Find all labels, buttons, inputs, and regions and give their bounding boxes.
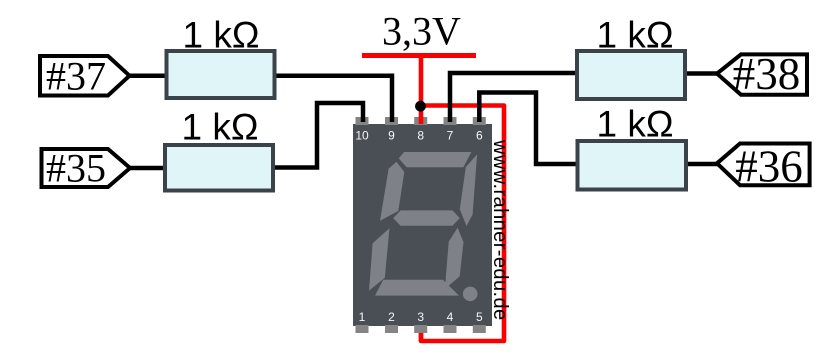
segment C lower-right [445,228,464,289]
pin 6 tab [473,117,486,125]
svg-text:2: 2 [388,310,395,324]
pin 4 tab [444,325,457,333]
power bar 3,3V [362,53,476,58]
wire: R1 to pin 9 [274,76,392,122]
segment E lower-left [369,228,390,290]
svg-text:8: 8 [417,129,424,143]
tag #35 [42,146,131,191]
segment F upper-left [380,162,404,221]
svg-text:4: 4 [447,310,454,324]
svg-text:#38: #38 [733,49,801,99]
svg-text:10: 10 [355,129,369,143]
resistor R2 [165,145,273,191]
pin 5 tab [473,325,486,333]
red stripe into pin 8 over tab [419,117,424,124]
resistor R3 [577,51,685,99]
junction node on pin 8 net [415,101,426,112]
svg-text:7: 7 [447,129,454,143]
tag #37 [40,54,130,99]
wire: tag #37 to R1 [128,73,167,78]
svg-text:3: 3 [417,310,424,324]
svg-text:www.rahner-edu.de: www.rahner-edu.de [489,139,511,321]
svg-text:3,3V: 3,3V [382,9,461,54]
pin 10 tab [356,117,369,125]
pin 2 tab [385,325,398,333]
wire red: bar to junction, around display to pin 3 [421,56,504,342]
pin 3 tab [414,325,427,333]
svg-text:6: 6 [476,129,483,143]
svg-text:1 kΩ: 1 kΩ [181,107,258,148]
svg-text:#37: #37 [46,54,106,99]
segment D bottom [375,280,459,296]
display U1 body [353,124,492,326]
pin 9 tab [385,117,398,125]
wire red: junction into pin 8 [419,106,424,124]
wire: R3 to pin 7 [450,73,578,122]
svg-text:1 kΩ: 1 kΩ [182,15,259,56]
red stripe into pin 3 over tab [419,333,424,341]
svg-text:1 kΩ: 1 kΩ [596,104,673,145]
seven segment digit 8 [369,152,477,296]
resistor R4 [578,141,687,190]
pin 1 tab [356,325,369,333]
svg-text:1 kΩ: 1 kΩ [596,15,673,56]
svg-text:#35: #35 [46,146,106,191]
wire: R3 to tag #38 [684,71,718,76]
segment A top [399,152,472,167]
svg-text:9: 9 [388,129,395,143]
segment G middle [393,210,460,225]
tag #36 [717,142,810,192]
svg-text:1: 1 [359,310,366,324]
wire: tag #35 to R2 [129,166,167,171]
pin 7 tab [444,117,457,125]
wire: R4 to pin 6 [479,93,578,165]
segment B upper-right [460,154,477,226]
svg-text:5: 5 [476,310,483,324]
tag #38 [717,49,807,99]
svg-text:#36: #36 [735,142,803,192]
wire: R2 to pin 10 [272,103,363,168]
decimal point [463,287,478,302]
pin 8 tab [414,117,427,125]
resistor R1 [167,51,275,98]
power net 3,3V red rail [362,56,504,342]
wire: R4 to tag #36 [685,162,718,167]
